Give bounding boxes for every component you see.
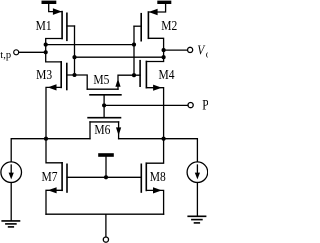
svg-text:M4: M4 [159,67,176,82]
svg-text:M6: M6 [94,122,110,137]
svg-text:M2: M2 [161,18,177,33]
svg-text:M7: M7 [42,169,58,184]
svg-text:M1: M1 [36,18,52,33]
svg-text:M5: M5 [93,72,109,87]
svg-text:M8: M8 [150,169,166,184]
svg-text:P: P [202,96,208,113]
svg-text:t,p: t,p [0,50,11,61]
svg-text:o: o [206,49,208,60]
svg-text:M3: M3 [36,67,52,82]
